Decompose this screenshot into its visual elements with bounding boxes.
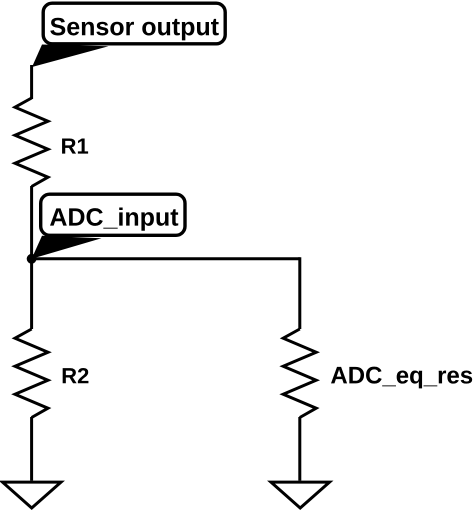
resistor ADC_eq_res (283, 329, 316, 418)
wire: node A to right branch (horizontal) (32, 257, 300, 260)
label R2 (63, 368, 89, 383)
wire: ADC_eq_res bottom to right ground (298, 417, 301, 481)
wire: right corner down to ADC_eq_res top (298, 257, 301, 329)
net label callout: Sensor output (32, 3, 225, 67)
wire: sensor lead into R1 top (30, 65, 33, 99)
resistor R2 (15, 329, 48, 418)
wire: R2 bottom to left ground (30, 417, 33, 481)
label ADC_eq_res (331, 367, 472, 389)
ground (left) (3, 482, 62, 508)
ground (right) (271, 482, 330, 508)
resistor R1 (15, 98, 48, 187)
label R1 (62, 138, 88, 153)
net label callout: ADC_input (32, 194, 185, 259)
wire: node A down to R2 top (30, 258, 33, 329)
node A junction dot (27, 254, 37, 264)
wire: R1 bottom to node A (30, 186, 33, 259)
